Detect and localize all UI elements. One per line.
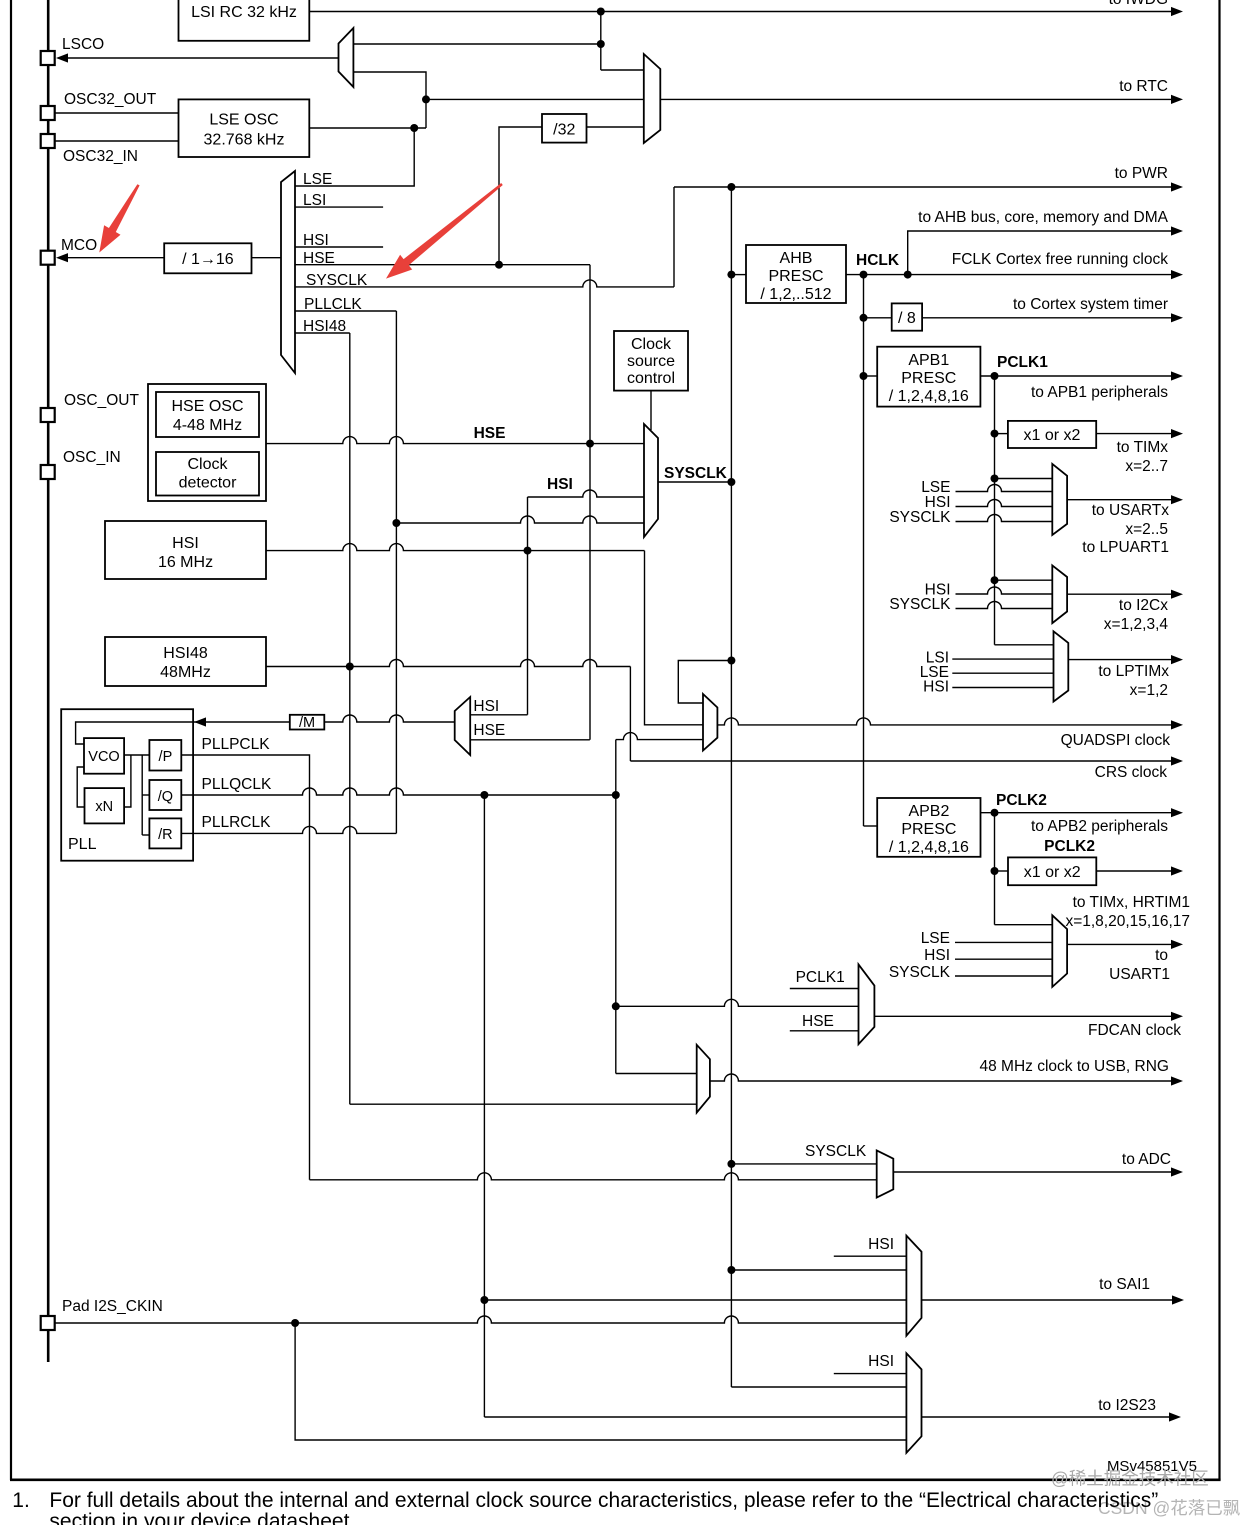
wire control to SYSCLK mux — [650, 391, 652, 430]
wire SAI output — [922, 1299, 1175, 1301]
wire HSI to SYSCLK mux — [528, 490, 645, 497]
annotation red arrow at MCO — [99, 184, 139, 252]
svg-text:control: control — [627, 370, 675, 387]
wire /8 to Cortex timer — [922, 317, 1173, 319]
divider /Q box — [149, 780, 181, 810]
oscillator LSI RC 32 kHz box — [179, 0, 310, 41]
mux QUADSPI — [703, 694, 717, 751]
wire SYSCLK to SAI mux — [731, 1269, 906, 1271]
wire HSE to /32 — [499, 127, 542, 265]
prescaler APB2 PRESC box — [877, 798, 980, 857]
arrow to USART1 — [1171, 940, 1183, 949]
oscillator LSE OSC 32.768 kHz box — [179, 99, 310, 157]
svg-text:/ 8: / 8 — [898, 310, 916, 327]
wire HSE stub FDCAN — [790, 1030, 859, 1032]
wire PLLQ to I2S mux — [484, 1416, 906, 1418]
wire PCLK2 to USART1 mux — [995, 924, 1053, 926]
wire HCLK to APB2 — [864, 825, 878, 827]
svg-text:x=1,2,3,4: x=1,2,3,4 — [1104, 616, 1169, 633]
svg-text:to LPTIMx: to LPTIMx — [1098, 663, 1169, 680]
svg-text:PLLPCLK: PLLPCLK — [202, 736, 271, 753]
divider / 1-16 box — [164, 243, 251, 273]
arrow CRS clock — [1171, 756, 1183, 765]
arrow to AHB bus — [1171, 226, 1183, 235]
wire I2S_CKIN line — [55, 1316, 907, 1323]
mux LPTIMx — [1054, 631, 1069, 701]
wire PCLK1 — [980, 375, 1173, 377]
wire PLLQ to FDCAN — [616, 999, 859, 1006]
arrow into LSCO pad — [56, 53, 68, 62]
mux MCO — [281, 171, 295, 373]
svg-text:SYSCLK: SYSCLK — [889, 596, 951, 613]
wire PCLK2 — [981, 812, 1174, 814]
wire LSE stub to MCO mux — [295, 128, 414, 186]
wire PLLP to ADC mux — [310, 1173, 877, 1180]
svg-text:to TIMx: to TIMx — [1117, 439, 1169, 456]
svg-text:LSCO: LSCO — [62, 36, 104, 53]
wire HCLK to /8 — [864, 317, 892, 319]
wire PCLK2 to x1x2 — [995, 870, 1009, 872]
arrow into PLL — [194, 717, 206, 726]
divider /P box — [149, 740, 181, 771]
wire FDCAN output — [874, 1015, 1173, 1017]
wire OSC32_OUT — [55, 112, 179, 114]
svg-text:HSI: HSI — [923, 679, 949, 696]
svg-text:to USARTx: to USARTx — [1092, 502, 1169, 519]
wire PLLQ to QUADSPI mux — [616, 733, 703, 740]
wire SYSCLK to ADC mux — [731, 1163, 876, 1165]
svg-text:Pad I2S_CKIN: Pad I2S_CKIN — [62, 1298, 163, 1315]
wire HSI riser — [527, 497, 529, 715]
svg-text:to RTC: to RTC — [1119, 78, 1168, 95]
wire HSI48 line — [266, 660, 630, 667]
arrow to I2S23 — [1169, 1412, 1181, 1421]
svg-text:FDCAN clock: FDCAN clock — [1088, 1022, 1181, 1039]
block Clock source control box — [614, 331, 688, 391]
block HSE OSC 4-48 MHz box — [156, 392, 259, 437]
svg-text:SYSCLK: SYSCLK — [805, 1143, 867, 1160]
junction PLLQ/SAI — [480, 1296, 488, 1304]
svg-text:PLLQCLK: PLLQCLK — [202, 776, 272, 793]
wire HSI stub I2C — [956, 587, 1053, 594]
wire USART output — [1067, 499, 1173, 501]
svg-text:PLLRCLK: PLLRCLK — [202, 814, 272, 831]
wire HSI stub SAI — [834, 1255, 907, 1257]
svg-text:FCLK Cortex free running clock: FCLK Cortex free running clock — [952, 251, 1168, 268]
wire I2S output — [922, 1416, 1172, 1418]
wire HSI stub — [295, 246, 383, 248]
junction LSI/IWDG — [597, 8, 605, 16]
junction SYSCLK/AHB — [727, 271, 735, 279]
mux I2Cx — [1052, 565, 1067, 623]
junction SYSCLK/PWR — [727, 183, 735, 191]
junction PCLK1/USART — [991, 475, 999, 483]
wire HSI stub I2S — [834, 1373, 907, 1375]
oscillator HSI 16 MHz box — [105, 521, 266, 579]
wire 48MHz output — [710, 1074, 1173, 1081]
wire PCLK1 to x1x2 — [995, 433, 1008, 435]
annotation red arrow at SYSCLK — [386, 183, 503, 279]
wire /32 to RTC mux — [587, 126, 644, 128]
wire PCLK1 stub FDCAN — [790, 988, 859, 990]
junction HCLK/APB1 — [860, 372, 868, 380]
svg-text:to I2Cx: to I2Cx — [1119, 597, 1168, 614]
svg-text:HSI: HSI — [868, 1236, 894, 1253]
junction PCLK2/x1x2 — [991, 867, 999, 875]
svg-text:to SAI1: to SAI1 — [1099, 1276, 1150, 1293]
junction HCLK//8 — [860, 314, 868, 322]
arrow FCLK — [1171, 270, 1183, 279]
junction SYSCLK/SAI — [727, 1266, 735, 1274]
svg-text:PRESC: PRESC — [901, 821, 956, 838]
block xN box — [85, 788, 125, 823]
wire mux to /M — [324, 715, 454, 722]
wire PLLQ to USB mux — [616, 1073, 697, 1075]
junction PLLQ branch 2 — [612, 791, 620, 799]
svg-text:1.: 1. — [12, 1489, 30, 1512]
svg-text:/ 1,2,4,8,16: / 1,2,4,8,16 — [889, 839, 969, 856]
svg-text:to LPUART1: to LPUART1 — [1082, 539, 1169, 556]
wire LSI drop — [600, 12, 602, 71]
svg-text:PLL: PLL — [68, 836, 97, 853]
wire PLLCLK to MCO mux — [295, 310, 396, 312]
mux I2S23 — [906, 1353, 921, 1453]
wire HCLK to APB1 PRESC — [864, 375, 878, 377]
svg-text:@稀土掘金技术社区: @稀土掘金技术社区 — [1051, 1469, 1209, 1489]
svg-text:4-48 MHz: 4-48 MHz — [173, 417, 242, 434]
multiplier x1 or x2 APB1 box — [1008, 421, 1096, 448]
svg-text:48 MHz clock to USB, RNG: 48 MHz clock to USB, RNG — [980, 1058, 1170, 1075]
svg-text:to TIMx, HRTIM1: to TIMx, HRTIM1 — [1073, 894, 1190, 911]
wire VCO to xN — [124, 755, 131, 807]
svg-text:/ 1,2,..512: / 1,2,..512 — [760, 286, 831, 303]
chip boundary line — [47, 0, 50, 1362]
wire LSI to RTC mux — [601, 69, 644, 71]
wire HSI48 riser — [349, 333, 351, 1104]
svg-text:APB1: APB1 — [908, 352, 949, 369]
wire HSI stub USART1 — [955, 958, 1052, 960]
svg-text:HSI: HSI — [172, 535, 199, 552]
wire CRS clock — [630, 760, 1173, 762]
wire PLLQ drop — [615, 795, 617, 1074]
wire SYSCLK to QUADSPI — [678, 661, 731, 704]
mux LSCO — [339, 28, 354, 87]
wire SYSCLK stub USART1 — [955, 975, 1052, 977]
junction PLLCLK branch — [392, 519, 400, 527]
svg-text:HSE: HSE — [474, 425, 506, 442]
svg-text:PCLK1: PCLK1 — [997, 354, 1048, 371]
wire RTC output — [660, 98, 1173, 100]
svg-text:x=2..5: x=2..5 — [1125, 521, 1168, 538]
wire HSE to MCO mux — [295, 264, 590, 266]
svg-text:/P: /P — [159, 749, 173, 765]
wire PCLK1 to I2C mux — [995, 579, 1053, 581]
arrow to SAI1 — [1172, 1295, 1184, 1304]
svg-text:PCLK1: PCLK1 — [796, 969, 845, 986]
mux RTC — [644, 54, 661, 143]
svg-text:SYSCLK: SYSCLK — [664, 465, 728, 482]
svg-text:VCO: VCO — [88, 749, 119, 765]
svg-text:/Q: /Q — [158, 789, 173, 805]
junction SYSCLK/QUADSPI — [727, 657, 735, 665]
prescaler AHB PRESC box — [746, 245, 846, 303]
wire OSC32_IN — [55, 140, 179, 142]
wire PCLK2 drop — [994, 813, 996, 925]
wire QUADSPI output — [717, 718, 1173, 725]
wire HSI drop to QUADSPI — [645, 551, 704, 725]
pad OSC_IN — [41, 465, 55, 479]
arrow 48MHz clock — [1171, 1076, 1183, 1085]
wire HSE riser — [589, 265, 591, 444]
svg-text:x1 or x2: x1 or x2 — [1024, 427, 1081, 444]
wire x1x2 to TIMx — [1096, 433, 1173, 435]
wire PLLCLK riser — [395, 311, 397, 833]
arrow to TIMx HRTIM1 — [1171, 866, 1183, 875]
block HSE OSC outer box — [148, 384, 266, 501]
junction PCLK2 node — [991, 809, 999, 817]
wire PLLQ drop 2 — [483, 795, 485, 1417]
wire LPTIM output — [1068, 659, 1173, 661]
wire HSI48 to MCO mux — [295, 332, 350, 334]
pad LSCO — [41, 51, 55, 65]
wire SYSCLK to AHB PRESC — [731, 274, 746, 276]
wire to /Q — [142, 794, 149, 796]
wire PLLQCLK — [181, 788, 616, 795]
mux FDCAN — [859, 964, 875, 1044]
wire PLLQ riser to QUADSPI — [615, 740, 617, 795]
svg-text:x=1,2: x=1,2 — [1130, 682, 1168, 699]
svg-text:to ADC: to ADC — [1122, 1151, 1171, 1168]
wire PCLK1 to LPTIM mux — [995, 644, 1054, 646]
svg-text:Clock: Clock — [631, 336, 672, 353]
divider /32 box — [542, 114, 587, 143]
arrow to ADC — [1171, 1167, 1183, 1176]
wire LSI stub LPTIM — [952, 658, 1053, 660]
svg-text:HSI: HSI — [924, 947, 950, 964]
svg-text:detector: detector — [179, 475, 237, 492]
svg-text:OSC_IN: OSC_IN — [63, 449, 121, 466]
svg-text:to I2S23: to I2S23 — [1098, 1397, 1156, 1414]
junction CKIN branch — [291, 1319, 299, 1327]
wire HSI48 to CRS — [629, 667, 631, 762]
junction HSE node — [586, 440, 594, 448]
svg-text:CRS clock: CRS clock — [1095, 764, 1168, 781]
wire VCO to dividers — [141, 755, 143, 835]
svg-text:32.768 kHz: 32.768 kHz — [204, 132, 285, 149]
svg-text:HSI: HSI — [547, 476, 573, 493]
wire SYSCLK riser to PWR — [673, 187, 675, 287]
wire x1x2 APB2 out — [1096, 870, 1173, 872]
wire SYSCLK spine — [730, 187, 732, 1387]
block VCO box — [84, 738, 124, 774]
svg-text:LSE OSC: LSE OSC — [209, 112, 278, 129]
wire LSI to IWDG — [309, 11, 1173, 13]
svg-text:to Cortex system timer: to Cortex system timer — [1013, 296, 1168, 313]
wire HSE to PLL mux — [470, 739, 590, 741]
junction PLLQ branch 1 — [480, 791, 488, 799]
svg-text:to PWR: to PWR — [1115, 165, 1168, 182]
svg-text:16 MHz: 16 MHz — [158, 554, 213, 571]
wire LSE stub LPTIM — [952, 672, 1053, 674]
wire VCO xN feedback — [77, 767, 84, 807]
svg-text:HSE OSC: HSE OSC — [171, 398, 243, 415]
wire I2C output — [1067, 593, 1173, 595]
svg-text:/ 1→16: / 1→16 — [182, 251, 234, 268]
arrow to IWDG — [1171, 7, 1183, 16]
junction HCLK/AHB bus — [904, 271, 912, 279]
arrow to Cortex system timer — [1171, 313, 1183, 322]
svg-text:LSI RC 32 kHz: LSI RC 32 kHz — [191, 4, 297, 21]
junction SYSCLK output node — [727, 478, 735, 486]
svg-text:HSE: HSE — [802, 1013, 834, 1030]
junction PCLK1/x1x2 — [991, 430, 999, 438]
wire VCO output — [124, 754, 149, 756]
mux USARTx — [1052, 464, 1067, 535]
wire LSE to RTC mux — [426, 98, 644, 100]
mux USB RNG 48MHz — [697, 1045, 710, 1113]
wire CKIN to I2S mux — [295, 1323, 906, 1440]
svg-text:source: source — [627, 353, 675, 370]
junction LSI branch — [597, 40, 605, 48]
svg-text:PRESC: PRESC — [901, 370, 956, 387]
wire LSE to LSCO mux — [353, 72, 426, 128]
wire SYSCLK output — [658, 481, 731, 483]
arrow QUADSPI clock — [1171, 720, 1183, 729]
wire PCLK1 to USART mux — [995, 478, 1053, 480]
svg-text:HCLK: HCLK — [856, 252, 900, 269]
block Clock detector box — [156, 452, 259, 496]
svg-text:APB2: APB2 — [908, 803, 949, 820]
pad OSC32_OUT — [41, 106, 55, 120]
svg-text:SYSCLK: SYSCLK — [889, 964, 951, 981]
pad MCO — [41, 251, 55, 265]
svg-text:48MHz: 48MHz — [160, 664, 211, 681]
mux SAI1 — [906, 1236, 921, 1336]
svg-text:HSI: HSI — [868, 1353, 894, 1370]
svg-text:HSI48: HSI48 — [163, 645, 208, 662]
arrow PCLK2 — [1171, 808, 1183, 817]
block PLL box — [61, 709, 193, 861]
svg-text:SYSCLK: SYSCLK — [889, 509, 951, 526]
figure frame right border — [1218, 0, 1220, 1480]
wire PLLQ to SAI mux — [484, 1299, 906, 1301]
wire PLLPCLK — [181, 755, 309, 1180]
wire LSCO output — [66, 57, 339, 59]
wire /M to PLL — [194, 721, 290, 723]
wire SYSCLK stub USART — [956, 515, 1053, 522]
arrow FDCAN clock — [1171, 1012, 1183, 1021]
arrow to LPTIMx — [1171, 655, 1183, 664]
svg-text:OSC32_OUT: OSC32_OUT — [64, 91, 157, 108]
wire SYSCLK to MCO mux — [295, 280, 674, 287]
arrow to I2Cx — [1171, 590, 1183, 599]
svg-text:OSC32_IN: OSC32_IN — [63, 148, 138, 165]
junction PCLK1 node — [991, 372, 999, 380]
svg-text:HSE: HSE — [473, 722, 505, 739]
junction HSE//32 — [495, 261, 503, 269]
wire HSE drop — [589, 444, 591, 740]
junction LSE/RTC — [422, 95, 430, 103]
wire USART1 output — [1067, 943, 1173, 945]
wire divider to MCO pad — [66, 257, 164, 259]
wire HCLK — [846, 274, 1173, 276]
svg-text:Clock: Clock — [187, 456, 228, 473]
svg-text:AHB: AHB — [780, 250, 813, 267]
svg-text:USART1: USART1 — [1109, 966, 1170, 983]
wire HSI stub USART — [956, 500, 1053, 507]
svg-text:x=1,8,20,15,16,17: x=1,8,20,15,16,17 — [1065, 913, 1190, 930]
wire HSI48 to USB mux — [350, 1103, 697, 1105]
junction HCLK main — [860, 271, 868, 279]
divider /R box — [149, 818, 181, 848]
arrow to TIMx — [1171, 429, 1183, 438]
wire LSI to LSCO mux — [353, 43, 600, 45]
svg-text:HSI: HSI — [473, 698, 499, 715]
oscillator HSI48 48MHz box — [105, 637, 266, 686]
svg-text:to APB2 peripherals: to APB2 peripherals — [1031, 818, 1168, 835]
svg-text:/ 1,2,4,8,16: / 1,2,4,8,16 — [889, 388, 969, 405]
junction HSI48 node — [346, 663, 354, 671]
pad I2S_CKIN — [41, 1316, 55, 1330]
svg-text:to: to — [1155, 947, 1168, 964]
svg-text:to IWDG: to IWDG — [1109, 0, 1168, 8]
svg-text:xN: xN — [95, 799, 113, 815]
mux SYSCLK — [644, 424, 658, 537]
wire to PWR — [674, 186, 1173, 188]
wire PLLCLK to SYSCLK mux — [396, 516, 644, 523]
svg-text:PCLK2: PCLK2 — [1044, 838, 1095, 855]
svg-text:LSE: LSE — [921, 930, 950, 947]
junction PCLK1/I2C — [991, 576, 999, 584]
divider /M box — [290, 715, 325, 730]
wire ADC output — [893, 1171, 1173, 1173]
svg-text:x1 or x2: x1 or x2 — [1024, 864, 1081, 881]
svg-text:/32: /32 — [553, 122, 575, 139]
junction SYSCLK/ADC — [727, 1160, 735, 1168]
wire LSE stub USART — [956, 485, 1053, 492]
junction HSI node — [524, 547, 532, 555]
svg-text:QUADSPI clock: QUADSPI clock — [1061, 732, 1171, 749]
wire HCLK drop — [863, 275, 865, 826]
svg-text:PCLK2: PCLK2 — [996, 792, 1047, 809]
pad OSC_OUT — [41, 408, 55, 422]
wire to /R — [142, 834, 149, 836]
svg-text:x=2..7: x=2..7 — [1125, 458, 1168, 475]
multiplier x1 or x2 APB2 box — [1008, 857, 1096, 885]
divider /8 box — [892, 303, 922, 330]
svg-text:to APB1 peripherals: to APB1 peripherals — [1031, 384, 1168, 401]
wire M input to VCO — [76, 722, 194, 744]
wire SYSCLK stub I2C — [956, 602, 1053, 609]
junction LSE/MCO branch — [410, 124, 418, 132]
svg-text:For full details about the int: For full details about the internal and … — [49, 1489, 1158, 1512]
svg-text:OSC_OUT: OSC_OUT — [64, 392, 139, 409]
svg-text:to AHB bus, core, memory and D: to AHB bus, core, memory and DMA — [918, 209, 1168, 226]
arrow to USARTx — [1171, 495, 1183, 504]
svg-text:MCO: MCO — [61, 237, 97, 254]
wire PLLRCLK — [181, 826, 396, 833]
wire HSI to PLL mux — [470, 714, 527, 716]
wire LSI stub — [295, 206, 383, 208]
wire LSE stub USART1 — [955, 941, 1052, 943]
arrow to RTC — [1171, 95, 1183, 104]
junction PLLQ/FDCAN — [612, 1002, 620, 1010]
arrow PCLK1 — [1171, 371, 1183, 380]
svg-text:section in your device datashe: section in your device datasheet. — [49, 1510, 355, 1525]
pad OSC32_IN — [41, 134, 55, 148]
wire HSI line — [266, 544, 645, 551]
wire SYSCLK to I2S mux — [731, 1386, 906, 1388]
